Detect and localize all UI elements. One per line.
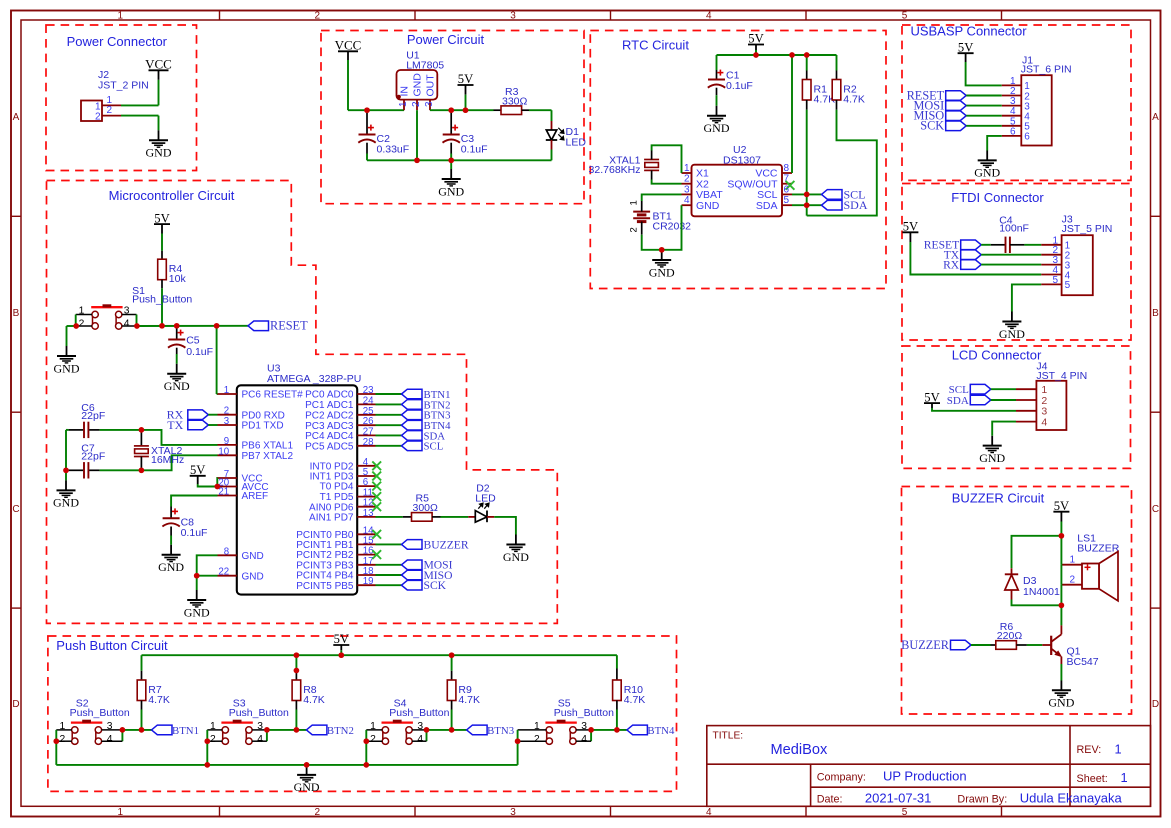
svg-text:2: 2: [684, 174, 690, 185]
LS1 pin 2: [1061, 584, 1082, 586]
svg-text:4.7K: 4.7K: [148, 694, 170, 706]
svg-text:6: 6: [784, 184, 790, 195]
net flag BTN2: [402, 400, 423, 410]
svg-text:D: D: [12, 699, 19, 710]
wire LS1 pin2 to collector node: [1060, 585, 1062, 606]
power 5V symbol: [1053, 511, 1069, 513]
capacitor C2: [359, 134, 376, 136]
wire pin28 to SCL: [376, 445, 402, 447]
U3 pin 3 PD1 TXD: [218, 424, 237, 426]
svg-text:GND: GND: [53, 496, 79, 510]
wire junction at 296.4,670.5: [294, 668, 300, 674]
resistor R3: [494, 109, 502, 111]
no-connect X on SQW/OUT: [786, 181, 795, 190]
U2 pin 4: [682, 204, 692, 206]
svg-text:5: 5: [1065, 280, 1071, 291]
resistor R1: [802, 80, 811, 101]
wire S1 to GND: [67, 325, 76, 327]
wire junction at 176.7,325.8: [174, 323, 180, 329]
net flag MISO: [946, 111, 967, 121]
crystal XTAL2: [140, 430, 142, 446]
svg-text:BC547: BC547: [1067, 656, 1099, 668]
svg-text:JST_4 PIN: JST_4 PIN: [1036, 370, 1087, 382]
svg-text:5V: 5V: [334, 632, 349, 646]
svg-text:10k: 10k: [169, 273, 187, 285]
svg-text:UP Production: UP Production: [883, 768, 967, 783]
resistor R3: [501, 106, 522, 115]
wire pin15 to BUZZER: [376, 543, 402, 545]
svg-text:JST_2 PIN: JST_2 PIN: [98, 80, 149, 92]
svg-text:BTN3: BTN3: [487, 725, 514, 737]
svg-text:PC0 ADC0: PC0 ADC0: [305, 390, 354, 401]
wire S3 to ground rail: [206, 741, 208, 765]
U3 pin 22 GND: [218, 575, 237, 577]
svg-text:5V: 5V: [154, 211, 169, 225]
wire VCC lead: [158, 70, 160, 80]
net flag BTN1: [152, 725, 173, 735]
svg-text:GND: GND: [649, 265, 675, 279]
U3 pin 12 AIN0 PD6: [357, 506, 375, 508]
U2 pin 5: [782, 204, 792, 206]
J1 pin 3: [1002, 105, 1022, 107]
svg-text:4.7K: 4.7K: [624, 694, 646, 706]
svg-text:1: 1: [224, 385, 229, 396]
svg-text:PC4 ADC4: PC4 ADC4: [305, 431, 354, 442]
wire junction at 792,55: [789, 52, 795, 58]
wire pin27 to SDA: [376, 434, 402, 436]
svg-text:21: 21: [218, 487, 229, 498]
net flag BTN3: [402, 410, 423, 420]
ground at J1: [978, 159, 997, 161]
net flag SDA: [822, 200, 843, 210]
power 5V symbol: [458, 84, 474, 86]
wire C6 row to PB6: [141, 430, 217, 445]
wire pin26 to BTN4: [376, 424, 402, 426]
S3 pin2 lead: [207, 740, 222, 742]
svg-text:SCK: SCK: [424, 579, 447, 592]
net flag RESET: [946, 91, 967, 101]
svg-text:GND: GND: [158, 560, 184, 574]
resistor R2 branch: [836, 55, 838, 71]
svg-text:IN: IN: [398, 86, 410, 97]
svg-text:4.7K: 4.7K: [843, 94, 865, 106]
wire XTAL1 top to X1: [651, 151, 653, 160]
svg-text:Power Connector: Power Connector: [67, 34, 168, 49]
net flag BUZZER: [951, 640, 972, 650]
S2 pin1 bracket: [56, 729, 72, 731]
BT1 pin 2: [641, 222, 643, 235]
U3 pin 24 PC1 ADC1: [357, 403, 375, 405]
U3 pin 11 T1 PD5: [357, 496, 375, 498]
resistor R8: [292, 680, 301, 701]
wire battery to ground rail: [642, 205, 682, 250]
wire to D3 branch: [1012, 536, 1062, 569]
U3 pin 26 PC3 ADC3: [357, 424, 375, 426]
svg-text:6: 6: [1024, 132, 1030, 143]
U3 pin 27 PC4 ADC4: [357, 434, 375, 436]
S2 pin2 lead: [56, 740, 72, 742]
svg-text:GND: GND: [438, 184, 464, 198]
S3 pin1 bracket: [207, 729, 222, 731]
GND push buttons: [306, 765, 308, 775]
wire R6 to base: [1027, 644, 1042, 646]
svg-text:8: 8: [224, 546, 229, 557]
U3 pin 21 AREF: [218, 495, 237, 497]
wire junction at 366.3,764.9: [363, 762, 369, 768]
U3 pin 23 PC0 ADC0: [357, 393, 375, 395]
J4 pin 3: [1016, 410, 1036, 412]
svg-text:2: 2: [534, 734, 540, 745]
U3 pin 9 PB6 XTAL1: [218, 444, 237, 446]
S4 pin1 bracket: [366, 729, 382, 731]
push button S3: [222, 727, 228, 733]
LS1 pin 1: [1061, 564, 1082, 566]
svg-text:1: 1: [1115, 742, 1122, 757]
wire GND pin8: [197, 555, 218, 575]
wire 5V to J1 pin1: [965, 53, 967, 62]
wire S2 to BTN1 row: [122, 729, 151, 731]
svg-text:8: 8: [784, 163, 790, 174]
svg-text:BTN2: BTN2: [327, 725, 354, 737]
wire junction at 196.7,575.7: [194, 573, 200, 579]
svg-text:CR2032: CR2032: [653, 220, 692, 232]
svg-text:16MHz: 16MHz: [151, 454, 184, 466]
wire junction at 207.3,764.9: [204, 762, 210, 768]
power VCC symbol: [338, 50, 358, 52]
capacitor C8: [163, 517, 180, 519]
wire junction at 66,470.3: [63, 467, 69, 473]
svg-text:5V: 5V: [924, 390, 939, 404]
svg-text:BUZZER: BUZZER: [901, 638, 950, 652]
wire collector: [1060, 605, 1062, 625]
J1 pin 2: [1002, 95, 1022, 97]
svg-text:5V: 5V: [958, 40, 973, 54]
wire R4 to reset row: [161, 288, 163, 326]
capacitor C5 branch: [176, 326, 178, 340]
J4 pin 1: [1016, 388, 1036, 390]
net flag BTN2: [306, 725, 327, 735]
svg-text:GND: GND: [1048, 696, 1074, 710]
svg-text:2: 2: [210, 734, 216, 745]
capacitor C3: [443, 134, 460, 136]
resistor R6: [996, 641, 1017, 650]
net flag MOSI: [402, 560, 423, 570]
svg-text:22: 22: [218, 567, 229, 578]
svg-text:BTN4: BTN4: [647, 725, 675, 737]
U3 pin 19 PCINT5 PB5: [357, 584, 375, 586]
power VCC symbol: [149, 69, 169, 71]
svg-text:Push_Button: Push_Button: [132, 294, 192, 306]
S5 pin1 bracket: [518, 729, 547, 731]
net flag TX: [188, 420, 209, 430]
Power Connector section box: [46, 25, 197, 171]
wire VBAT to battery: [642, 194, 682, 201]
connector J2: [81, 101, 102, 122]
wire RX to pin2: [208, 414, 217, 416]
S3 pin4 lead: [252, 740, 267, 742]
wire C6 to XTAL2 top: [100, 429, 142, 431]
net flag MISO: [402, 570, 423, 580]
wire GND pin22: [197, 575, 218, 577]
svg-text:MediBox: MediBox: [771, 742, 828, 758]
svg-text:27: 27: [363, 426, 374, 437]
ground rail power circuit: [367, 159, 552, 161]
battery BT1: [633, 211, 650, 213]
capacitor C4: [981, 244, 991, 246]
U3 pin 10 PB7 XTAL2: [218, 454, 237, 456]
U3 pin 13 AIN1 PD7: [357, 516, 375, 518]
svg-text:GND: GND: [294, 780, 320, 794]
svg-text:22pF: 22pF: [81, 451, 105, 463]
wire J4 pin4 to GND: [992, 422, 1016, 436]
svg-text:1: 1: [118, 10, 124, 21]
wire U1 pin3 to 5V row: [430, 109, 494, 111]
resistor R7 branch: [141, 655, 143, 671]
svg-text:2: 2: [1069, 575, 1075, 586]
5V rail rtc: [717, 54, 837, 56]
U3 pin 18 PCINT4 PB4: [357, 574, 375, 576]
svg-text:24: 24: [363, 395, 374, 406]
U3 pin 20 AVCC: [218, 486, 237, 488]
wire to GND xtal caps: [65, 470, 67, 480]
svg-text:1: 1: [629, 200, 640, 205]
svg-text:22pF: 22pF: [81, 410, 105, 422]
wire emitter to GND: [1060, 657, 1062, 664]
svg-text:23: 23: [363, 385, 374, 396]
svg-text:1: 1: [398, 101, 409, 107]
connector J3: [1062, 235, 1093, 295]
net flag BTN3: [467, 725, 488, 735]
net flag SCL: [822, 190, 843, 200]
wire TX to J3 pin2: [981, 254, 1041, 256]
svg-text:BUZZER: BUZZER: [424, 538, 469, 551]
ground at push buttons: [297, 774, 316, 776]
svg-text:GND: GND: [164, 379, 190, 393]
svg-text:5: 5: [902, 807, 908, 818]
svg-text:28: 28: [363, 437, 374, 448]
net flag RESET: [961, 240, 982, 250]
svg-text:32.768KHz: 32.768KHz: [589, 164, 641, 176]
wire reset to PC6: [216, 326, 218, 394]
svg-text:TITLE:: TITLE:: [713, 731, 744, 742]
reset row wire: [137, 325, 249, 327]
wire junction at 56.3,741.2: [53, 738, 59, 744]
wire junction at 451.2,110.2: [448, 107, 454, 113]
svg-text:DS1307: DS1307: [723, 154, 761, 166]
svg-text:PB6 XTAL1: PB6 XTAL1: [242, 441, 294, 452]
U3 pin 8 GND: [218, 554, 237, 556]
J1 pin 5: [1002, 125, 1022, 127]
svg-text:Push Button Circuit: Push Button Circuit: [56, 638, 168, 653]
resistor R4: [161, 251, 163, 259]
wire SDA to J4: [991, 399, 1016, 401]
push button S1: [92, 311, 98, 317]
svg-text:5V: 5V: [190, 463, 205, 477]
svg-text:GND: GND: [704, 121, 730, 135]
U2 pin 6: [782, 193, 792, 195]
svg-text:RTC Circuit: RTC Circuit: [622, 38, 689, 53]
svg-text:1: 1: [118, 807, 124, 818]
svg-text:4: 4: [706, 10, 712, 21]
wire MOSI to J1: [966, 105, 1002, 107]
wire junction at 296.4,729.9: [294, 727, 300, 733]
wire junction at 141.5,729.9: [139, 727, 145, 733]
wire junction at 806.7,55: [804, 52, 810, 58]
wire between LS1 pins: [1060, 565, 1062, 585]
power 5V symbol: [748, 44, 764, 46]
svg-text:300Ω: 300Ω: [413, 502, 439, 514]
resistor R2: [832, 80, 841, 101]
svg-text:3: 3: [510, 807, 516, 818]
wire SCL to J4: [991, 388, 1016, 390]
wire junction at 162,325.8: [159, 323, 165, 329]
resistor R6: [991, 644, 996, 646]
svg-text:10: 10: [218, 446, 229, 457]
svg-text:LCD Connector: LCD Connector: [952, 348, 1042, 363]
svg-text:A: A: [13, 112, 20, 123]
resistor R9 branch: [451, 655, 453, 671]
S5 pin3 bracket: [576, 729, 591, 731]
svg-text:5V: 5V: [903, 220, 918, 234]
svg-text:SCL: SCL: [424, 441, 444, 453]
U3 pin 5 INT1 PD3: [357, 475, 375, 477]
wire junction at 1061.4,535.8: [1059, 533, 1065, 539]
svg-text:Company:: Company:: [817, 771, 866, 783]
svg-text:LED: LED: [475, 493, 496, 505]
svg-text:B: B: [1152, 308, 1159, 319]
J3 pin 3: [1041, 264, 1061, 266]
svg-text:5: 5: [902, 10, 908, 21]
J1 pin 1: [1002, 84, 1022, 86]
svg-text:4.7K: 4.7K: [303, 694, 325, 706]
ground at xtal caps: [57, 489, 76, 491]
svg-text:OUT: OUT: [424, 74, 436, 97]
resistor R8 branch: [295, 655, 297, 670]
svg-text:4: 4: [107, 734, 113, 745]
net flag MOSI: [946, 101, 967, 111]
U3 pin 7 VCC: [218, 477, 237, 479]
svg-text:1N4001: 1N4001: [1023, 586, 1060, 598]
capacitor C4: [1005, 237, 1007, 253]
J3 pin 2: [1041, 254, 1061, 256]
svg-text:3: 3: [224, 416, 229, 427]
wire BUZZER flag to R6: [971, 644, 991, 646]
wire pin25 to BTN3: [376, 414, 402, 416]
J1 pin 4: [1002, 115, 1022, 117]
J4 pin 2: [1016, 399, 1036, 401]
no-connect marks U3: [372, 461, 381, 470]
svg-text:2: 2: [59, 734, 65, 745]
wire R3 to D1: [529, 109, 552, 111]
svg-text:2: 2: [315, 807, 321, 818]
svg-text:B: B: [13, 308, 20, 319]
capacitor C2 branch: [366, 110, 368, 134]
wire junction at 661.7,249.8: [659, 247, 665, 253]
svg-text:Date:: Date:: [817, 793, 843, 805]
wire junction at 591.1,729.9: [588, 727, 594, 733]
Push Button Circuit section box: [48, 636, 677, 791]
capacitor C1: [708, 79, 725, 81]
svg-text:GND: GND: [146, 146, 172, 160]
LED D1: [551, 121, 553, 130]
wire S4 to BTN3 row: [427, 729, 467, 731]
svg-text:Power Circuit: Power Circuit: [407, 32, 485, 47]
capacitor C3 branch: [450, 110, 452, 134]
wire VCC pin8 up to rail: [791, 55, 793, 173]
wire R1 down to SCL/SDA: [806, 110, 808, 216]
ground rail push buttons: [56, 764, 517, 766]
svg-text:A: A: [1152, 112, 1159, 123]
wire C4 to J3 pin1: [1024, 244, 1041, 246]
net flag BTN4: [402, 420, 423, 430]
J4 pin 4: [1016, 421, 1036, 423]
svg-text:VCC: VCC: [145, 57, 172, 72]
wire J1 pin6 to GND: [987, 136, 1002, 151]
capacitor C5: [168, 339, 185, 341]
svg-text:2: 2: [370, 734, 376, 745]
svg-text:PC2 ADC2: PC2 ADC2: [305, 410, 354, 421]
svg-text:Push_Button: Push_Button: [554, 707, 614, 719]
wire S5 to ground rail: [517, 741, 519, 765]
5V rail push buttons: [142, 654, 617, 656]
wire pin18 to MISO: [376, 574, 402, 576]
svg-text:1: 1: [1069, 555, 1075, 566]
wire junction at 296.4,655.2: [294, 652, 300, 658]
capacitor C7: [83, 462, 85, 478]
ground at power circuit: [442, 178, 461, 180]
net flag SDA: [970, 395, 991, 405]
U3 pin 28 PC5 ADC5: [357, 445, 375, 447]
net flag SCL: [402, 441, 423, 451]
svg-text:1: 1: [1121, 770, 1128, 785]
svg-text:0.1uF: 0.1uF: [186, 346, 213, 358]
svg-text:JST_6 PIN: JST_6 PIN: [1021, 63, 1072, 75]
wire 5V lead rtc: [755, 45, 757, 51]
svg-text:4: 4: [684, 195, 690, 206]
U1 pin 3: [429, 100, 431, 111]
ground at C1: [707, 115, 726, 117]
wire J3 pin5 to GND: [1012, 284, 1041, 311]
wire junction at 136.9,326: [134, 323, 140, 329]
capacitor C1 branch: [716, 55, 718, 70]
svg-text:USBASP Connector: USBASP Connector: [910, 23, 1027, 38]
S1 pin3 bracket: [122, 314, 137, 316]
USBASP Connector section box: [902, 25, 1131, 180]
net flag BTN4: [627, 725, 648, 735]
S4 pin4 lead: [412, 740, 427, 742]
wire rail to GND: [450, 160, 452, 169]
wire R5 to D2: [441, 516, 469, 518]
ground at C8: [162, 554, 181, 556]
U2 pin 2: [682, 183, 692, 185]
ground at J4: [983, 445, 1002, 447]
J3 pin 4: [1041, 274, 1061, 276]
U1 pin 2: [416, 100, 418, 111]
svg-text:5V: 5V: [458, 72, 473, 86]
wire junction at 367,110.2: [364, 107, 370, 113]
wire junction at 806.7,194.4: [804, 192, 810, 198]
svg-text:PC5 ADC5: PC5 ADC5: [305, 441, 354, 452]
wire junction at 141.4,429.9: [139, 427, 145, 433]
svg-text:BTN1: BTN1: [172, 725, 199, 737]
resistor R10: [613, 680, 622, 701]
Power Circuit section box: [321, 31, 584, 204]
wire S4 to ground rail: [365, 741, 367, 765]
S1 pin2 lead: [76, 325, 92, 327]
svg-text:0.33uF: 0.33uF: [377, 144, 410, 156]
S2 pin4 lead: [101, 740, 122, 742]
svg-text:Drawn By:: Drawn By:: [957, 793, 1007, 805]
